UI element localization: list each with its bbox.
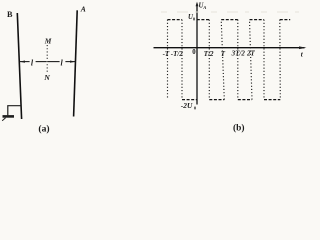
wave top segment -T to -T/2 [168, 19, 183, 21]
x-axis t [154, 46, 307, 49]
arrow right (measure line toward plate A) [65, 61, 75, 63]
wave top segment 0 to T/2 [197, 19, 210, 21]
scan smudge (decorative) [161, 11, 308, 13]
wave bottom segment -T/2 to 0 [182, 99, 197, 101]
wave top segment T to 3T/2 [221, 19, 238, 21]
svg-text:A: A [202, 5, 206, 10]
wave top segment 2T to 5T/2 [250, 19, 265, 21]
svg-text:B: B [7, 10, 13, 19]
svg-text:M: M [44, 36, 52, 45]
svg-text:(b): (b) [233, 122, 244, 133]
wave edge at T [221, 20, 224, 100]
wave edge at 3T/2 [237, 20, 239, 100]
wave bottom segment 5T/2 to 3T [264, 99, 280, 101]
label U_A (axis name) [199, 2, 207, 10]
arrow left (measure line toward plate B) [19, 61, 29, 63]
svg-text:-T/2: -T/2 [171, 50, 184, 58]
wave bottom segment T/2 to T [209, 99, 224, 101]
wire (measure line centre-right segment) [48, 61, 60, 63]
svg-text:T: T [221, 50, 226, 58]
wave edge at 5T/2 [263, 20, 265, 100]
ground [2, 116, 14, 120]
svg-text:(a): (a) [38, 124, 49, 134]
wire (plate B to ground) [8, 106, 21, 116]
label -2U0 (lower level value) [181, 101, 197, 110]
wire (measure line centre-left segment) [36, 61, 47, 63]
wave edge at 3T [279, 20, 282, 100]
svg-text:-2U: -2U [181, 101, 193, 110]
svg-text:0: 0 [192, 49, 196, 56]
svg-text:3T/2: 3T/2 [231, 49, 246, 57]
svg-text:N: N [43, 73, 50, 82]
y-axis U_A [196, 2, 199, 105]
svg-text:A: A [80, 4, 86, 13]
wave edge at -T/2 [181, 20, 183, 100]
plate A [74, 10, 78, 116]
svg-text:T/2: T/2 [204, 50, 214, 58]
label U0 (upper level value) [188, 14, 196, 21]
wave top segment after 3T [280, 19, 290, 21]
wave bottom segment 3T/2 to 2T [238, 99, 252, 101]
wave edge at 2T [250, 20, 253, 100]
wave edge at T/2 [208, 20, 210, 100]
dotted line M-N [46, 45, 48, 73]
plate B [17, 13, 21, 119]
wave edge at -T [167, 20, 169, 100]
svg-text:-T: -T [163, 50, 170, 58]
